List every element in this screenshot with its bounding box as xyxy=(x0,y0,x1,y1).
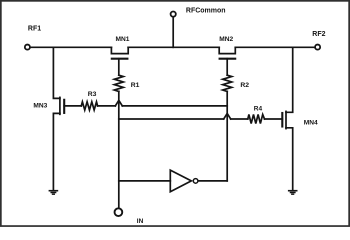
wire: RFCommon terminal to top rail xyxy=(172,18,174,48)
wire: top rail MN2 to RF2 xyxy=(235,46,314,48)
wire: R1 bottom down to IN node (left control vertical) xyxy=(118,91,120,208)
wire hop (no-connect) over right vertical xyxy=(224,114,231,120)
wire: hop to inverter-output node (INB line to R2 node) xyxy=(122,105,227,107)
svg-text:RFCommon: RFCommon xyxy=(186,8,226,15)
transistor MN3 gate bar xyxy=(63,100,65,113)
transistor MN2 gate bar xyxy=(220,58,236,60)
svg-text:IN: IN xyxy=(137,218,144,225)
svg-text:RF2: RF2 xyxy=(312,31,325,38)
inverter U1 triangle xyxy=(170,170,191,192)
svg-text:MN4: MN4 xyxy=(304,120,318,127)
svg-text:MN1: MN1 xyxy=(116,36,130,43)
transistor MN4 drain arm from top rail xyxy=(286,47,293,112)
wire: hop to R4 xyxy=(231,118,248,120)
svg-text:R2: R2 xyxy=(240,82,249,89)
wire: IN node to inverter input xyxy=(119,180,171,182)
wire hop (no-connect) over left vertical xyxy=(115,100,122,106)
wire: RF1 to MN1 drain (top rail left) xyxy=(31,46,112,48)
transistor MN1 gate bar xyxy=(112,58,128,60)
resistor R2 (MN2 gate resistor) xyxy=(223,75,232,91)
resistor R4 (MN4 gate resistor) xyxy=(248,115,265,124)
svg-text:MN2: MN2 xyxy=(219,36,233,43)
transistor MN3 source arm to ground xyxy=(53,113,60,189)
terminal RF1 xyxy=(25,45,30,50)
transistor MN3 drain arm from top rail xyxy=(53,47,60,98)
svg-text:R1: R1 xyxy=(131,82,140,89)
transistor MN3 channel xyxy=(59,97,61,114)
transistor MN1 channel (series FET RF1 side) xyxy=(111,47,128,53)
wire: inverter output to INB vertical xyxy=(199,180,228,182)
wire: R2 bottom down to inverter output (right control vertical) xyxy=(226,91,228,180)
wire: MN2 gate to R2 xyxy=(226,59,228,75)
transistor MN4 gate bar xyxy=(281,113,283,127)
svg-text:MN3: MN3 xyxy=(33,103,47,110)
wire: MN3 gate to R3 xyxy=(64,105,81,107)
resistor R1 (MN1 gate resistor) xyxy=(114,75,123,91)
terminal RFCommon xyxy=(171,12,176,17)
wire: R4 to MN4 gate xyxy=(265,118,283,120)
transistor MN2 channel (series FET RF2 side) xyxy=(219,47,235,53)
wire: top rail MN1 to MN2 (RFCommon segment) xyxy=(128,46,219,48)
terminal IN xyxy=(115,208,123,216)
ground (left, MN3 source) xyxy=(49,190,57,192)
transistor MN4 channel xyxy=(285,111,287,128)
terminal RF2 xyxy=(315,45,320,50)
transistor MN4 source arm to ground xyxy=(286,128,293,190)
svg-text:R3: R3 xyxy=(88,91,97,98)
svg-text:RF1: RF1 xyxy=(28,25,41,32)
ground (right, MN4 source) xyxy=(289,190,297,192)
wire: IN node tee to right (IN line) xyxy=(119,118,224,120)
resistor R3 (MN3 gate resistor) xyxy=(81,102,97,110)
svg-text:R4: R4 xyxy=(254,106,263,113)
inverter U1 output bubble xyxy=(193,179,198,184)
wire: MN1 gate to R1 xyxy=(118,59,120,75)
wire: R3 to hop over IN node xyxy=(98,105,116,107)
